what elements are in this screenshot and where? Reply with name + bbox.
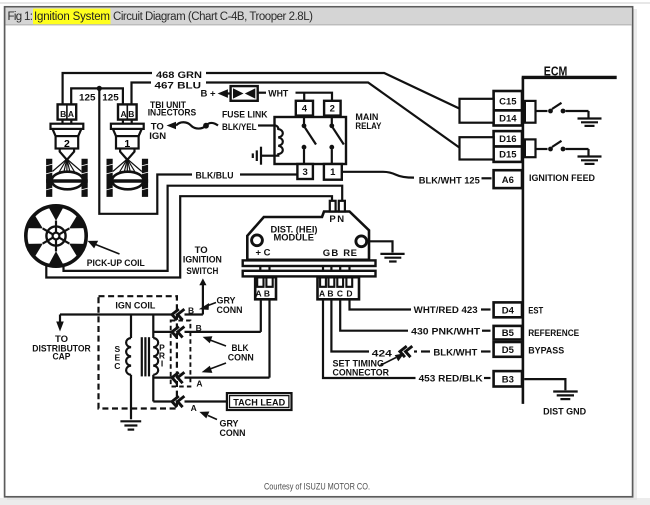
module base plate lower: [243, 271, 376, 277]
injector harness connector shell 2: [460, 137, 494, 159]
injector 2: [45, 104, 88, 196]
wire tach lead: [153, 400, 171, 402]
injector harness connector shell 1: [460, 99, 494, 123]
module mounting hole left: [252, 235, 263, 246]
svg-text:B: B: [331, 248, 338, 259]
module base plate upper: [243, 260, 376, 266]
module ground: [380, 254, 404, 262]
page top rule: [0, 2, 650, 3]
svg-text:125: 125: [79, 93, 96, 104]
connector GRY A: [172, 396, 184, 407]
relay pin 1: [324, 164, 342, 180]
module connector ABCD: [318, 277, 360, 299]
svg-text:I: I: [161, 359, 163, 369]
svg-text:BYPASS: BYPASS: [528, 345, 564, 356]
ECM pin D4: [494, 302, 522, 317]
svg-text:BLK/WHT: BLK/WHT: [433, 347, 477, 358]
bottom page strip: [0, 498, 650, 505]
pick-up coil pointer arrow: [95, 244, 120, 254]
connector GRY B: [172, 309, 184, 320]
ECM inner tab 2: [525, 139, 536, 157]
ECM switch 2: [536, 141, 589, 156]
svg-text:1: 1: [330, 167, 336, 178]
svg-text:B: B: [196, 323, 202, 333]
svg-text:Circuit Diagram (Chart C-4B, T: Circuit Diagram (Chart C-4B, Trooper 2.8…: [113, 11, 313, 23]
svg-text:CONN: CONN: [228, 352, 254, 363]
svg-text:C15: C15: [499, 96, 517, 107]
wire 467 BLU: [132, 83, 460, 148]
svg-text:125: 125: [102, 93, 119, 104]
svg-text:REFERENCE: REFERENCE: [528, 328, 579, 339]
svg-text:B: B: [188, 305, 194, 315]
module pin N: [339, 201, 345, 212]
svg-text:1: 1: [124, 138, 130, 150]
TO IGN arrow and squiggle: [149, 122, 218, 142]
ECM inner tab 1: [525, 101, 536, 123]
main relay: [222, 101, 382, 180]
svg-text:A: A: [121, 109, 127, 119]
ECM pin B3: [494, 371, 522, 386]
svg-text:TACH LEAD: TACH LEAD: [233, 397, 285, 408]
arrow to distributor cap: [59, 315, 61, 323]
injector 1: [106, 104, 149, 196]
svg-text:CAP: CAP: [53, 351, 72, 362]
ECM switch 1: [536, 103, 589, 118]
wire 468 GRN: [63, 73, 460, 109]
wire DIST GND (A pin): [323, 299, 416, 378]
svg-text:INJECTORS: INJECTORS: [148, 108, 197, 119]
svg-text:D14: D14: [499, 113, 517, 124]
connector BLK A: [172, 372, 184, 383]
ECM pin B5: [494, 326, 522, 340]
module pin P: [330, 201, 336, 212]
svg-text:MODULE: MODULE: [273, 233, 314, 244]
svg-text:IGNITION FEED: IGNITION FEED: [529, 173, 595, 184]
reluctor teeth: [27, 207, 84, 265]
svg-text:R: R: [343, 248, 350, 259]
svg-text:B: B: [128, 109, 134, 119]
svg-text:WHT/RED 423: WHT/RED 423: [414, 305, 478, 316]
svg-text:Courtesy of ISUZU MOTOR CO.: Courtesy of ISUZU MOTOR CO.: [264, 482, 370, 492]
svg-text:Fig 1:: Fig 1:: [8, 11, 34, 23]
TACH LEAD box: [227, 393, 292, 410]
title bar: [6, 8, 632, 25]
svg-text:B5: B5: [502, 328, 515, 339]
module outline: [247, 212, 369, 260]
svg-text:D15: D15: [499, 150, 517, 161]
set timing connector chevron: [400, 346, 412, 357]
svg-text:A6: A6: [502, 175, 514, 186]
svg-text:A: A: [256, 288, 262, 298]
arrow BLK CONN upper: [210, 340, 226, 346]
svg-text:EST: EST: [528, 306, 543, 317]
svg-text:CONN: CONN: [217, 305, 243, 316]
relay pin 2: [324, 101, 341, 116]
pole piece hub: [46, 226, 65, 245]
tick to A6: [482, 177, 492, 179]
svg-text:3: 3: [302, 167, 307, 178]
svg-text:N: N: [337, 214, 344, 225]
svg-text:G: G: [323, 248, 330, 259]
ECM pin A6: [494, 170, 522, 188]
svg-text:430 PNK/WHT: 430 PNK/WHT: [411, 326, 480, 337]
svg-text:CONN: CONN: [220, 428, 246, 439]
base pin ticks: [260, 266, 349, 271]
ECM pin D14: [494, 110, 522, 125]
wire EST (D pin): [350, 299, 412, 309]
coil ground: [120, 421, 141, 429]
svg-text:PICK-UP COIL: PICK-UP COIL: [87, 258, 145, 269]
svg-text:B: B: [327, 289, 333, 299]
svg-text:BLK/WHT 125: BLK/WHT 125: [419, 175, 481, 186]
dist ground symbol: [553, 392, 578, 400]
ECM pin D16: [494, 131, 522, 146]
module connector AB: [255, 277, 276, 299]
svg-text:453 RED/BLK: 453 RED/BLK: [419, 374, 483, 385]
svg-text:2: 2: [330, 104, 335, 115]
wire fuse to relay WHT: [258, 93, 332, 101]
svg-text:4: 4: [302, 104, 308, 115]
coil core: [142, 337, 149, 376]
coil secondary winding: [126, 315, 131, 420]
ground ECM switch 1: [578, 119, 602, 126]
module ground wire: [367, 241, 393, 252]
arrow GRY CONN bottom: [208, 416, 217, 420]
relay coil: [270, 126, 283, 156]
arrow to ignition switch: [199, 278, 206, 285]
wire pickup N (inner): [64, 186, 343, 271]
wire module C to coil: [153, 331, 171, 333]
ground ECM switch 2: [578, 157, 602, 164]
wire BLK/WHT 125 from relay pin 1: [342, 172, 414, 178]
label TO IGNITION SWITCH: [183, 245, 222, 315]
svg-text:A: A: [191, 403, 197, 413]
ECM pin C15: [494, 91, 522, 110]
svg-text:D16: D16: [499, 134, 516, 145]
ECM pin D5: [494, 342, 522, 357]
arrow BLK CONN lower: [210, 363, 226, 369]
wire pickup P (outer): [46, 196, 332, 277]
svg-text:2: 2: [64, 138, 70, 150]
svg-text:B +: B +: [201, 89, 217, 100]
relay pin 4: [296, 101, 313, 116]
svg-text:A: A: [196, 378, 202, 388]
svg-text:B: B: [60, 109, 66, 119]
svg-text:E: E: [351, 248, 357, 259]
svg-text:P: P: [329, 214, 336, 225]
connector BLK B: [172, 327, 184, 338]
svg-text:SWITCH: SWITCH: [186, 266, 218, 277]
wire BLK/BLU right: [240, 173, 297, 175]
wire REFERENCE (C pin): [340, 299, 408, 330]
wire coil B+ feed: [131, 313, 172, 315]
coil primary winding: [153, 315, 158, 402]
svg-text:IGN COIL: IGN COIL: [115, 300, 155, 311]
svg-text:D: D: [346, 289, 352, 299]
injector 2 connector BA: [58, 104, 77, 119]
relay contact b: [329, 117, 343, 164]
junction dot: [97, 86, 102, 91]
HEI module: [243, 201, 405, 277]
svg-text:D4: D4: [502, 305, 515, 316]
ign coil dashed box: [99, 296, 177, 408]
relay contact a: [302, 117, 316, 164]
reluctor ring: [26, 206, 86, 266]
relay ground (left): [253, 147, 275, 165]
svg-text:Ignition System: Ignition System: [34, 11, 110, 23]
svg-text:WHT: WHT: [268, 89, 288, 100]
module mounting hole right: [356, 236, 367, 247]
ECM left edge: [522, 77, 525, 404]
svg-text:A: A: [319, 289, 325, 299]
svg-text:467 BLU: 467 BLU: [155, 80, 202, 91]
svg-text:IGN: IGN: [149, 131, 166, 142]
svg-text:B3: B3: [502, 374, 514, 385]
wire BYPASS (B pin): [331, 299, 369, 351]
ECM: [522, 64, 617, 404]
title text: [33, 9, 111, 25]
ECM pin D15: [494, 147, 522, 162]
svg-text:BLK/BLU: BLK/BLU: [196, 170, 234, 181]
wire module tach/coil minus: [153, 377, 171, 379]
black connector dashed box: [171, 321, 191, 387]
svg-text:CONNECTOR: CONNECTOR: [333, 368, 390, 379]
svg-text:C: C: [114, 361, 120, 371]
fuse link: [222, 86, 268, 121]
svg-text:A: A: [68, 109, 74, 119]
svg-text:RELAY: RELAY: [355, 121, 382, 132]
svg-text:C: C: [337, 289, 343, 299]
svg-text:FUSE LINK: FUSE LINK: [222, 110, 268, 121]
B+ label and arrow: [201, 89, 232, 100]
svg-text:D5: D5: [502, 345, 515, 356]
pick-up coil: [26, 206, 120, 266]
arrow GRY CONN top: [208, 303, 216, 306]
wire junction to BLK/BLU: [99, 88, 192, 213]
svg-text:B: B: [264, 288, 270, 298]
svg-text:DIST GND: DIST GND: [543, 406, 586, 417]
injector junction bar 125: [71, 88, 123, 104]
wire to dist ground: [524, 379, 565, 390]
ECM top bus: [522, 76, 617, 79]
injector 1 connector AB: [118, 104, 137, 119]
svg-text:IGNITION: IGNITION: [183, 255, 222, 266]
svg-text:+ C: + C: [256, 248, 271, 259]
svg-text:BLK/YEL: BLK/YEL: [222, 122, 257, 133]
relay pin 3: [297, 164, 313, 179]
arrow set timing: [379, 358, 396, 367]
